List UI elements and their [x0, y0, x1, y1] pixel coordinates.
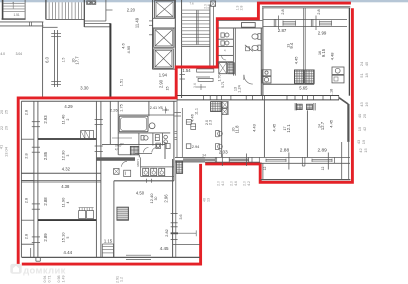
- svg-text:4.38: 4.38: [61, 184, 70, 189]
- svg-text:2.26: 2.26: [110, 107, 119, 112]
- svg-text:22: 22: [0, 126, 4, 130]
- svg-text:11.49: 11.49: [134, 17, 139, 28]
- svg-text:4.32: 4.32: [62, 167, 71, 172]
- svg-text:2.41 УБ: 2.41 УБ: [150, 106, 164, 110]
- svg-text:12.30: 12.30: [60, 150, 65, 161]
- svg-text:4.45: 4.45: [160, 246, 169, 251]
- svg-text:2.88: 2.88: [280, 148, 290, 154]
- svg-text:0.71: 0.71: [221, 81, 225, 88]
- svg-text:42: 42: [362, 126, 367, 131]
- svg-text:2.87: 2.87: [278, 28, 287, 33]
- svg-text:1.70: 1.70: [218, 75, 222, 82]
- svg-text:4.0: 4.0: [0, 52, 5, 56]
- svg-text:4.45: 4.45: [328, 119, 333, 128]
- svg-text:0.71: 0.71: [48, 276, 52, 283]
- svg-text:12.40: 12.40: [149, 193, 154, 204]
- svg-text:2.8: 2.8: [23, 153, 28, 158]
- svg-text:13: 13: [207, 198, 211, 202]
- svg-text:45: 45: [364, 61, 369, 66]
- svg-text:4.6: 4.6: [234, 181, 238, 186]
- svg-text:0.6: 0.6: [207, 4, 211, 9]
- svg-text:2.8: 2.8: [23, 234, 28, 239]
- svg-text:12.1: 12.1: [286, 124, 291, 133]
- svg-text:2.93: 2.93: [43, 115, 48, 124]
- svg-text:2.8: 2.8: [23, 110, 28, 115]
- svg-text:2.99: 2.99: [318, 30, 327, 35]
- svg-text:2.94: 2.94: [192, 145, 199, 149]
- svg-text:11.40: 11.40: [60, 114, 65, 124]
- svg-text:3: 3: [66, 154, 70, 156]
- svg-text:4.2: 4.2: [247, 181, 251, 186]
- svg-text:2.96: 2.96: [164, 194, 169, 203]
- svg-text:7.6: 7.6: [190, 2, 195, 6]
- svg-text:4.50: 4.50: [136, 190, 145, 195]
- svg-text:11.90: 11.90: [60, 197, 65, 207]
- svg-text:2.8: 2.8: [281, 9, 285, 14]
- svg-text:2.8: 2.8: [23, 198, 28, 203]
- svg-text:2.20: 2.20: [127, 8, 136, 13]
- svg-text:5: 5: [66, 236, 70, 238]
- svg-text:25: 25: [362, 113, 367, 118]
- svg-text:2.89: 2.89: [318, 148, 328, 154]
- svg-text:20: 20: [0, 110, 4, 114]
- svg-text:19: 19: [361, 139, 366, 144]
- svg-text:34: 34: [202, 154, 206, 158]
- svg-text:1.94: 1.94: [159, 73, 168, 78]
- svg-text:кух: кух: [115, 148, 120, 151]
- svg-text:3.30: 3.30: [80, 85, 89, 90]
- svg-text:30: 30: [154, 197, 158, 201]
- svg-text:1.15: 1.15: [104, 238, 113, 243]
- svg-text:1.5: 1.5: [62, 58, 66, 63]
- svg-text:4.29: 4.29: [64, 104, 73, 109]
- svg-text:4.45: 4.45: [272, 123, 277, 132]
- svg-text:2.03: 2.03: [219, 149, 228, 154]
- svg-text:4.44: 4.44: [63, 250, 72, 255]
- svg-text:17.7: 17.7: [75, 56, 80, 65]
- svg-text:2.90: 2.90: [158, 79, 163, 88]
- svg-text:11.8: 11.8: [234, 125, 239, 134]
- svg-text:1.24: 1.24: [238, 85, 242, 92]
- svg-text:4.48: 4.48: [329, 52, 334, 61]
- svg-text:2.3: 2.3: [208, 120, 212, 125]
- svg-text:2: 2: [66, 118, 70, 120]
- svg-text:15: 15: [363, 148, 368, 153]
- svg-text:3.6: 3.6: [179, 215, 183, 220]
- svg-text:4: 4: [165, 108, 167, 112]
- svg-text:12: 12: [263, 167, 267, 171]
- svg-text:15: 15: [165, 87, 169, 91]
- svg-text:11.1: 11.1: [195, 108, 199, 115]
- svg-text:29: 29: [5, 126, 9, 130]
- svg-text:15.10: 15.10: [60, 232, 65, 243]
- svg-text:1.75: 1.75: [120, 104, 124, 111]
- svg-text:9.15: 9.15: [321, 48, 326, 57]
- svg-text:16: 16: [364, 102, 369, 107]
- svg-text:0.94: 0.94: [43, 276, 47, 283]
- svg-text:4.45: 4.45: [294, 56, 299, 65]
- svg-text:4: 4: [66, 201, 70, 203]
- svg-text:1.49: 1.49: [62, 276, 66, 283]
- svg-text:домклик: домклик: [23, 264, 66, 275]
- svg-text:1.54: 1.54: [182, 68, 191, 73]
- svg-text:25: 25: [5, 110, 9, 114]
- svg-text:3.04: 3.04: [16, 52, 23, 56]
- svg-text:9.4: 9.4: [289, 42, 294, 48]
- svg-text:2.8: 2.8: [239, 6, 243, 11]
- svg-text:2.0: 2.0: [217, 181, 221, 186]
- svg-text:2.85: 2.85: [43, 151, 48, 160]
- svg-text:12.7: 12.7: [320, 121, 325, 130]
- svg-text:6.0: 6.0: [44, 56, 49, 62]
- svg-text:4.43: 4.43: [252, 123, 257, 132]
- svg-text:1.51: 1.51: [14, 13, 20, 17]
- svg-text:2.82: 2.82: [165, 229, 169, 236]
- svg-text:2.89: 2.89: [43, 233, 48, 242]
- svg-text:МОП: МОП: [136, 160, 140, 167]
- svg-text:18: 18: [364, 73, 369, 78]
- svg-text:4.0: 4.0: [221, 181, 225, 186]
- svg-text:0.98: 0.98: [57, 276, 61, 283]
- svg-text:12: 12: [321, 167, 325, 171]
- svg-text:Общ: Общ: [115, 143, 122, 147]
- svg-text:1.2: 1.2: [120, 277, 124, 282]
- svg-text:2.8: 2.8: [317, 9, 321, 14]
- svg-text:2.88: 2.88: [43, 197, 48, 206]
- svg-text:1.51: 1.51: [119, 79, 123, 86]
- svg-text:5.65: 5.65: [299, 85, 308, 90]
- svg-text:13.04: 13.04: [4, 146, 9, 157]
- svg-text:4.95: 4.95: [126, 45, 131, 54]
- svg-text:2.0: 2.0: [230, 181, 234, 186]
- svg-text:2.0: 2.0: [243, 181, 247, 186]
